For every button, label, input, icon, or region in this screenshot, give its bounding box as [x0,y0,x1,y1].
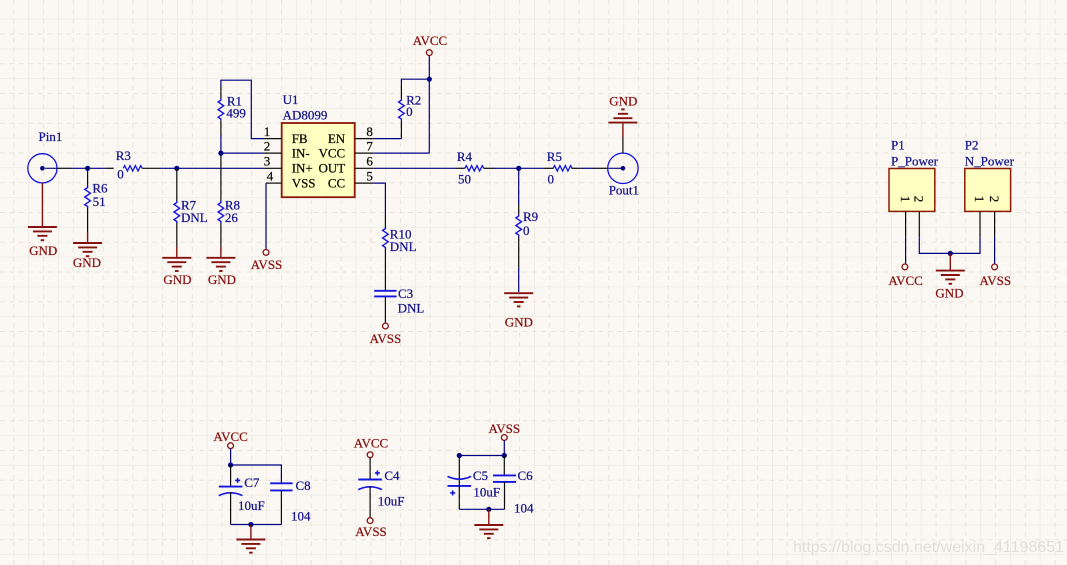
svg-text:50: 50 [458,171,471,186]
wire P1 pin2 to GND node [919,237,950,253]
svg-text:8: 8 [366,124,373,139]
svg-text:C6: C6 [518,468,534,483]
wire Pout1 up to GND [622,137,624,153]
junction GND node P1 P2 [948,251,953,256]
ground GND under C7 C8 [236,540,265,553]
power port AVCC above C7 [228,443,234,449]
connector P1 box [889,169,935,212]
connector Pin1 [28,154,71,183]
svg-text:R5: R5 [547,149,562,164]
wire bottom C5 C6 [459,508,504,510]
capacitor C3 [374,291,396,297]
resistor R3 [106,166,161,171]
svg-text:AVSS: AVSS [489,421,521,436]
pin 2 of P2 [994,211,996,237]
resistor R8 [218,153,224,247]
svg-text:GND: GND [73,255,101,270]
resistor R7 [174,168,180,247]
ground GND under C5 C6 [474,525,503,538]
svg-text:0: 0 [117,167,124,182]
wire bottom C7 C8 [231,524,282,526]
junction C5 node [457,453,462,458]
capacitor C6 [493,456,516,510]
svg-text:N_Power: N_Power [965,154,1015,169]
ground GND above Pout1 [608,109,637,122]
wire AVCC junction to R2 top [401,79,429,86]
pin 8 stub [355,138,374,140]
svg-text:GND: GND [505,315,533,330]
ground GND under P1 P2 [936,271,965,284]
svg-text:DNL: DNL [398,300,425,315]
wire P1 pin1 to AVCC [905,237,907,264]
svg-text:C5: C5 [473,468,488,483]
svg-text:104: 104 [514,501,534,516]
capacitor C8 [270,483,292,524]
pin 2 of P1 [918,211,920,237]
power port AVSS under C3 [383,323,389,329]
svg-text:GND: GND [163,272,191,287]
junction output node [516,166,521,171]
svg-text:OUT: OUT [318,161,345,176]
svg-text:FB: FB [292,131,308,146]
junction IN- node [218,151,223,156]
pin 1 stub [264,138,282,140]
wire IN- junction to pin 2 [221,152,264,154]
svg-text:0: 0 [548,171,555,186]
op-amp U1 box [282,123,355,197]
pin 1 of P1 [905,211,907,237]
svg-text:AVSS: AVSS [355,524,387,539]
junction R6 node [85,166,90,171]
wire AVCC down [428,56,430,154]
resistor R9 [516,204,522,268]
wire C6 node to C5 [459,455,504,457]
svg-text:1: 1 [264,124,271,139]
pin 6 stub [355,167,374,169]
ground GND under Pin1 [28,183,57,240]
svg-text:U1: U1 [283,92,299,107]
junction C7 node [228,462,233,467]
svg-text:0: 0 [523,223,530,238]
wire Pin1 to R3 [71,167,106,169]
wire R3 to pin 3 [160,167,264,169]
svg-text:AVCC: AVCC [413,33,447,48]
wire down to GND under C5 [488,509,490,525]
wire P2 pin1 to GND node [950,237,980,253]
resistor R10 [383,216,389,290]
svg-text:IN+: IN+ [292,161,313,176]
pin 5 stub [355,182,374,184]
svg-text:C8: C8 [296,478,311,493]
wire feedback loop R1 to pin 1 [221,80,264,138]
ground GND under R7 [162,247,191,271]
svg-text:GND: GND [208,272,236,287]
svg-text:EN: EN [328,131,346,146]
svg-text:AVSS: AVSS [980,273,1012,288]
svg-text:DNL: DNL [181,210,208,225]
svg-text:2: 2 [264,138,271,153]
wire AVSS down to C6 node [503,440,505,455]
wire R1 bottom to IN- junction [220,135,222,153]
power port AVCC under P1 [902,264,908,270]
wire P2 pin2 to AVSS [994,237,996,264]
svg-text:P_Power: P_Power [891,154,939,169]
svg-text:AVCC: AVCC [213,429,247,444]
wire AVCC down to C7 node [230,449,232,465]
ground GND under R6 [73,232,102,256]
svg-text:7: 7 [366,138,373,153]
power port AVSS under P2 [992,264,998,270]
svg-text:6: 6 [366,154,373,169]
svg-text:GND: GND [935,286,963,301]
wire R2 bottom to pin 8 [373,138,401,140]
svg-text:GND: GND [609,94,637,109]
power port AVSS at pin 4 [263,250,269,256]
svg-text:VSS: VSS [292,175,316,190]
wire R5 to Pout1 [581,167,593,169]
svg-text:104: 104 [291,509,311,524]
pin 7 stub [355,152,374,154]
capacitor C7 [219,465,243,525]
resistor R2 [399,86,405,139]
pin 2 stub [264,152,282,154]
pin 3 stub [264,167,282,169]
wire R9 to GND [518,268,520,292]
svg-text:AVCC: AVCC [888,273,922,288]
capacitor C5 [448,456,472,510]
wire C3 to AVSS [384,297,386,323]
wire R4 to R5 [494,167,544,169]
svg-text:https://blog.csdn.net/weixin_4: https://blog.csdn.net/weixin_41198651 [793,539,1064,556]
svg-text:C3: C3 [398,286,413,301]
svg-text:DNL: DNL [390,239,417,254]
resistor R6 [85,168,91,232]
wire pin 4 down to AVSS [265,183,267,249]
wire GND node down [949,253,951,270]
svg-text:Pout1: Pout1 [609,183,639,198]
svg-text:AVSS: AVSS [251,257,283,272]
power port AVCC above C4 [367,452,373,458]
power port AVCC top [426,50,432,56]
svg-text:IN-: IN- [292,145,310,160]
svg-text:AVSS: AVSS [370,331,402,346]
svg-text:26: 26 [225,210,239,225]
wire AVCC to pin 7 [373,152,429,154]
pin 1 of P2 [979,211,981,237]
svg-text:AVCC: AVCC [354,435,388,450]
junction C6 node [502,453,507,458]
resistor R5 [544,166,581,171]
wire output node down to R9 [518,168,520,204]
svg-text:499: 499 [226,105,246,120]
svg-text:P1: P1 [891,137,905,152]
pin 4 stub [266,182,282,184]
svg-text:10uF: 10uF [238,498,265,513]
ground GND under R9 [504,293,533,306]
svg-text:GND: GND [29,243,57,258]
svg-text:1: 1 [972,196,987,203]
svg-text:10uF: 10uF [378,493,405,508]
wire C7 node to C8 [231,465,282,483]
resistor R1 [218,86,224,135]
svg-text:2: 2 [987,196,1002,203]
ground GND under R8 [206,247,235,271]
svg-text:2: 2 [912,196,927,203]
svg-text:AD8099: AD8099 [283,108,328,123]
junction C7 ground node [248,522,253,527]
svg-text:CC: CC [328,175,345,190]
svg-text:VCC: VCC [318,145,345,160]
connector Pout1 [608,153,638,183]
svg-text:C7: C7 [244,475,260,490]
connector P2 box [965,169,1011,212]
power port AVSS under C4 [367,518,373,524]
svg-text:P2: P2 [965,137,979,152]
wire pin 5 to R10 [373,183,385,216]
svg-text:R4: R4 [457,149,473,164]
wire down to GND under C7 [250,525,252,540]
svg-text:C4: C4 [384,468,400,483]
svg-text:R3: R3 [116,148,131,163]
resistor R4 [455,166,494,171]
power port AVSS above C6 [501,435,507,441]
svg-text:4: 4 [267,168,274,183]
svg-text:5: 5 [366,168,373,183]
wire pin 6 to R4 [373,167,455,169]
capacitor C4 [358,458,382,518]
svg-text:3: 3 [264,154,271,169]
svg-text:1: 1 [898,196,913,203]
svg-text:Pin1: Pin1 [39,129,63,144]
junction C5 ground node [486,507,491,512]
svg-text:R9: R9 [523,209,538,224]
svg-text:10uF: 10uF [473,485,500,500]
junction R7 node [174,166,179,171]
junction AVCC node [427,77,432,82]
svg-text:0: 0 [406,104,413,119]
svg-text:51: 51 [93,194,106,209]
